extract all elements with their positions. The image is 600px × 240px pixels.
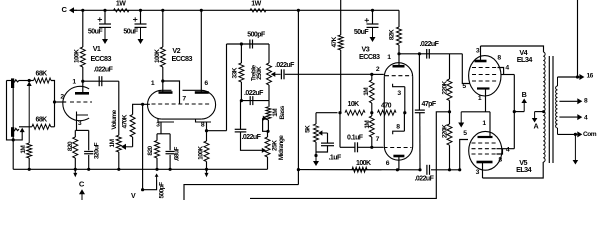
V5 grid 3 — [472, 153, 497, 155]
junction speaker line — [576, 75, 579, 78]
svg-text:1M: 1M — [364, 121, 371, 129]
junction cathode follower output — [205, 129, 208, 132]
resistor 33K slope — [240, 44, 242, 63]
resistor 1M grid leak — [27, 143, 32, 158]
ground arrow presence — [315, 156, 317, 163]
wire grid junction to channel 2 — [54, 102, 56, 127]
resistor 100K V1 plate load — [82, 10, 84, 47]
capacitor 50uF filter 1 — [104, 10, 106, 23]
wire V3a cathode lead — [404, 87, 406, 113]
tube V3 envelope — [384, 63, 412, 77]
svg-text:.68uF: .68uF — [174, 147, 181, 162]
ground arrow cathodes — [460, 112, 462, 124]
svg-text:.1uF: .1uF — [329, 155, 342, 162]
potentiometer Treble 250K — [268, 44, 270, 63]
capacitor 500pF treble — [249, 40, 251, 49]
resistor 68K input 1 — [34, 78, 51, 83]
capacitor 47pF bridge — [418, 54, 420, 110]
junction V3a plate node — [398, 45, 400, 54]
resistor 470K — [130, 115, 135, 138]
svg-text:820: 820 — [147, 145, 154, 155]
wire to node B — [514, 111, 524, 113]
wire V3b cathode lead — [403, 113, 405, 132]
svg-text:470K: 470K — [121, 114, 128, 128]
wire 16 ohm tap — [558, 76, 580, 78]
wire bass to midrange — [267, 131, 269, 137]
svg-text:V1: V1 — [93, 44, 101, 53]
capacitor .022uF slope lower — [240, 101, 242, 130]
wire 68K to grid junction — [51, 81, 55, 103]
svg-text:1M: 1M — [20, 146, 27, 154]
rail junction dots — [81, 9, 84, 12]
wire V4 plate to OT primary top — [481, 46, 544, 52]
V1 grid — [70, 101, 92, 103]
svg-text:Bass: Bass — [279, 105, 286, 119]
wire 0.1uF to V3b grid — [358, 146, 384, 148]
transformer T1 secondary winding — [557, 77, 559, 86]
wire V2a plate lead — [162, 81, 164, 92]
V3a plate — [393, 65, 405, 68]
resistor 220K V5 grid leak — [447, 124, 452, 145]
midrange wiper arrow — [262, 149, 263, 151]
wire B+ off-page bottom — [184, 185, 298, 200]
svg-text:82K: 82K — [388, 29, 395, 40]
wire pot bottom — [315, 142, 317, 156]
svg-text:47pF: 47pF — [422, 101, 437, 108]
junction jack2 sleeve — [12, 138, 15, 141]
wire B+ drop to V3b plate feed — [297, 10, 299, 184]
wire V2b plate to rail — [200, 10, 202, 92]
capacitor .022uF treble output — [280, 69, 282, 79]
svg-text:Midrange: Midrange — [278, 135, 285, 160]
svg-text:47K: 47K — [331, 36, 338, 47]
potentiometer Volume 1M — [116, 135, 121, 152]
junction V2 grid node — [141, 103, 144, 106]
wire V4 grid feed — [462, 54, 470, 84]
svg-text:Com: Com — [583, 131, 597, 138]
junction cathode node — [403, 111, 406, 114]
wire 0.1uF left — [340, 146, 355, 148]
triode V1 envelope — [63, 86, 89, 120]
potentiometer Midrange 25K — [265, 137, 270, 157]
wire jack1 tip wrap to jack2 switch — [7, 81, 23, 140]
svg-text:.022uF: .022uF — [94, 67, 114, 74]
bass wiper arrow — [263, 117, 264, 119]
V5 grid 1 — [472, 142, 497, 144]
wire 820 to ground — [156, 158, 158, 169]
input jack 1 — [11, 78, 14, 88]
svg-text:.022uF: .022uF — [415, 176, 435, 183]
V2a plate — [159, 91, 173, 94]
wire OT center tap to node A — [535, 111, 544, 113]
wire V5 plate lead — [482, 162, 484, 178]
wire presence pot to tail — [315, 113, 317, 124]
junction screen node — [513, 110, 516, 113]
wire to speaker (off-page top) — [577, 0, 579, 77]
junction 1M bottom — [370, 146, 373, 149]
V4 grid 1 — [472, 80, 498, 82]
svg-text:50uF: 50uF — [88, 29, 103, 36]
resistor 1M V3b grid leak — [369, 116, 374, 137]
wire 8 ohm tap — [559, 100, 577, 102]
wire wiper to .1uF — [327, 133, 329, 143]
wire 500pF return — [143, 180, 157, 190]
svg-text:Volume: Volume — [111, 109, 118, 129]
svg-text:EL34: EL34 — [516, 165, 532, 174]
capacitor .022uF tone — [249, 96, 251, 105]
V2 grid line — [152, 103, 212, 105]
V5 cathode — [478, 136, 493, 138]
wire to midrange wiper — [241, 132, 262, 150]
off-page arrow node C — [81, 193, 83, 200]
resistor 100K V3b plate load — [352, 167, 367, 172]
wire coupling cap to volume pot — [118, 81, 120, 135]
wire tone stack mid rail — [241, 100, 269, 102]
svg-text:1W: 1W — [116, 1, 126, 8]
svg-text:.022uF: .022uF — [420, 41, 440, 48]
wire V1 grid lead — [55, 101, 67, 103]
wire V2a plate node — [162, 67, 164, 81]
svg-text:ECC83: ECC83 — [172, 54, 193, 63]
ground arrow under 50uF 1 — [104, 28, 106, 40]
wire 68K2 to junction — [51, 126, 55, 128]
resistor 100K V2a plate load — [162, 10, 164, 47]
wire V4 cathode lead — [485, 89, 487, 112]
resistor 68K input 2 — [32, 124, 51, 129]
wire 470K to V2 grid — [133, 104, 150, 114]
wire V5 cathode lead — [489, 112, 491, 137]
svg-text:820: 820 — [67, 141, 74, 151]
resistor 1W dropper (left) — [114, 9, 130, 12]
input jack 2 — [11, 127, 14, 137]
wire 47K to tail node — [340, 50, 342, 113]
arrow tap 16 — [579, 76, 582, 78]
junction bias node — [449, 101, 451, 112]
capacitor 50uF filter 2 — [140, 10, 142, 23]
junction bass wiper tie — [266, 130, 269, 133]
svg-text:470: 470 — [381, 102, 392, 109]
svg-text:10K: 10K — [348, 101, 360, 108]
junction rail — [297, 9, 300, 12]
volume wiper arrow — [125, 146, 133, 148]
svg-text:33K: 33K — [231, 67, 238, 78]
V4 g3 tie — [498, 68, 504, 75]
junction presence ground — [314, 154, 317, 157]
presence wiper arrow — [321, 132, 327, 134]
junction 220K — [448, 168, 451, 171]
junction V3b plate — [396, 168, 399, 171]
transformer core line 2 — [552, 56, 554, 163]
wire V3b plate lead — [398, 156, 400, 170]
capacitor .022uF V3a coupling — [426, 49, 428, 59]
junction common ground — [574, 133, 577, 136]
V2b cathode — [196, 119, 212, 123]
junction tail node — [338, 111, 341, 114]
junction 33K top — [240, 42, 243, 45]
svg-text:100K: 100K — [356, 160, 371, 167]
wire 33K to lower node — [240, 82, 242, 101]
wire midrange to ground bus — [267, 157, 269, 169]
wire treble bottom — [268, 85, 270, 101]
wire V4 plate lead — [480, 46, 482, 61]
svg-text:68K: 68K — [36, 71, 48, 78]
V5 g3 tie — [497, 149, 503, 154]
V4 plate — [475, 60, 487, 63]
resistor 10K tail — [345, 110, 365, 115]
tube V3b envelope arc — [384, 146, 412, 160]
resistor 47K tail feed — [340, 0, 342, 35]
wire 4 ohm tap — [559, 116, 577, 118]
ground arrow under 50uF 3 — [372, 28, 374, 38]
V4 cathode — [477, 87, 490, 89]
junction slope node — [240, 99, 243, 102]
wire V1 plate lead — [82, 81, 84, 92]
wire CF output to tone stack — [207, 130, 227, 132]
ground arrow common — [574, 134, 576, 161]
svg-text:B: B — [522, 90, 527, 99]
svg-text:.022uF: .022uF — [275, 62, 295, 69]
junction jack switch node — [28, 79, 31, 82]
svg-text:68K: 68K — [36, 117, 48, 124]
wire V5 screen lead — [497, 148, 515, 150]
V4 grid 3 — [472, 67, 498, 69]
wire V1 plate node with junction — [82, 67, 84, 81]
svg-text:500pF: 500pF — [247, 32, 266, 39]
wire NFB node to 0.1uF — [339, 113, 341, 148]
treble wiper arrow — [274, 73, 280, 75]
ground markers below bus — [74, 169, 76, 173]
svg-text:.022uF: .022uF — [242, 134, 262, 141]
svg-text:1M: 1M — [363, 88, 370, 96]
junction V5 grid riser — [458, 168, 461, 171]
wire V1 cathode node — [75, 129, 88, 131]
capacitor .68uF bypass — [169, 134, 171, 151]
off-page arrow node A — [534, 112, 536, 119]
wire coupling to V5 grid node — [431, 169, 460, 171]
svg-text:ECC83: ECC83 — [91, 54, 112, 63]
V3b plate — [393, 155, 404, 158]
wire B+ rail — [74, 9, 399, 11]
arrow tap 8 — [577, 100, 578, 102]
wire V2b cathode lead — [206, 122, 208, 131]
wire bias feed line — [250, 112, 450, 199]
off-page arrow to node C — [73, 9, 77, 11]
svg-text:50uF: 50uF — [123, 29, 138, 36]
wire V1 cathode lead — [76, 115, 78, 130]
wire V2a cathode lead — [160, 122, 162, 134]
svg-text:100K: 100K — [154, 49, 161, 63]
capacitor .022uF V1 coupling — [98, 76, 100, 86]
V3a cathode — [393, 84, 405, 87]
svg-text:250K: 250K — [256, 66, 263, 80]
ground arrow under 50uF 2 — [140, 28, 142, 40]
V2b plate — [195, 91, 209, 94]
arrow tap Com — [577, 133, 578, 135]
arrow tap 4 — [577, 116, 578, 118]
capacitor 500pF to ground (arrow) — [156, 176, 158, 180]
wire tone stack input riser — [226, 44, 228, 131]
wire jack2 tip — [19, 126, 32, 128]
junction V3a grid — [370, 73, 373, 76]
svg-text:220K: 220K — [441, 80, 448, 94]
wire 820 to ground bus — [74, 158, 76, 169]
junction 47pF top — [418, 52, 421, 55]
svg-text:1W: 1W — [251, 1, 261, 8]
wire jack1 tip — [19, 80, 34, 82]
wire cathode ground line — [461, 111, 490, 113]
off-page arrow node B — [523, 102, 525, 112]
wire bass bottom — [267, 120, 269, 131]
V1 plate — [75, 92, 89, 95]
resistor 820 V2a cathode — [156, 134, 158, 141]
wire bass wiper loop — [263, 118, 268, 131]
junction plate feed — [297, 168, 300, 171]
junction 500pF wire — [141, 188, 144, 191]
junction grid node — [53, 100, 56, 103]
wire .1uF return — [316, 146, 328, 152]
transformer T1 primary winding — [543, 52, 545, 162]
jack switch contact arrow — [28, 85, 30, 143]
V5 grid 2 — [472, 148, 497, 150]
svg-text:ECC83: ECC83 — [359, 52, 380, 61]
jack2 switch contact arrow — [21, 131, 23, 132]
svg-text:100K: 100K — [74, 49, 81, 63]
V5 plate — [477, 161, 493, 164]
resistor 1W dropper (right) — [250, 9, 266, 12]
V3b cathode — [393, 131, 405, 134]
wire V2a cathode node — [157, 133, 170, 135]
svg-text:0.1uF: 0.1uF — [347, 135, 364, 142]
tube V2 envelope — [148, 90, 162, 119]
capacitor .1uF presence — [321, 142, 334, 144]
svg-text:500pF: 500pF — [159, 182, 166, 199]
wire volume to ground bus — [118, 152, 120, 169]
wire tone stack top — [227, 43, 270, 45]
capacitor 0.1uF NFB — [354, 142, 356, 152]
junction 47pF bottom — [418, 168, 421, 171]
capacitor .022uF V3b coupling — [426, 165, 428, 175]
wire tone output to V3 grid — [285, 73, 372, 75]
wire V4 screen lead — [501, 74, 514, 76]
wire common tap — [558, 133, 578, 135]
wire V1 plate to coupling cap — [83, 80, 119, 82]
V3b grid line — [384, 147, 412, 149]
svg-text:5K: 5K — [304, 125, 311, 133]
potentiometer Presence 5K — [314, 124, 319, 142]
wire V3b plate line — [298, 169, 420, 171]
wire ground bus — [13, 168, 267, 170]
resistor 1M V3a grid leak — [369, 80, 374, 103]
svg-text:320uF: 320uF — [94, 142, 101, 159]
V4 grid 2 — [472, 74, 498, 76]
wire 220K to V5 grid node — [449, 145, 451, 170]
wire V3a output — [399, 53, 462, 55]
wire screen bus — [513, 75, 515, 149]
capacitor 320uF V1 bypass — [88, 130, 90, 150]
V2a cathode — [158, 119, 174, 123]
resistor 470 cathode bias — [378, 110, 397, 115]
svg-text:50uF: 50uF — [354, 29, 369, 36]
wire 1M to ground bus — [28, 158, 30, 169]
pentode V5 envelope — [469, 131, 502, 170]
wire tail left — [316, 112, 338, 114]
transformer core line 1 — [548, 56, 550, 163]
svg-text:EL34: EL34 — [517, 55, 533, 64]
wire grid node down to 500pF — [142, 104, 144, 189]
wire V3a plate lead — [398, 54, 400, 66]
wire jack sleeves to ground — [12, 84, 14, 169]
resistor 100K V2b cathode — [206, 131, 208, 141]
svg-text:220K: 220K — [441, 124, 448, 138]
pentode V4 envelope — [469, 56, 501, 96]
ground bus junction dots — [28, 168, 31, 171]
svg-text:16: 16 — [587, 73, 594, 80]
potentiometer Bass 1M — [268, 101, 270, 107]
svg-text:100K: 100K — [198, 146, 205, 160]
svg-text:1M: 1M — [109, 139, 116, 147]
resistor 820 V1 cathode — [74, 130, 76, 137]
resistor 220K V4 grid leak — [449, 54, 451, 79]
wire V5 grid riser — [460, 140, 468, 170]
wire wiper to 470K — [132, 137, 134, 147]
wire 100K to ground — [206, 162, 208, 170]
wire grid entry — [372, 73, 384, 75]
V1 cathode — [77, 112, 89, 116]
junction 1M node — [370, 111, 373, 114]
svg-text:A: A — [533, 122, 538, 131]
capacitor 50uF filter 3 — [372, 10, 374, 23]
svg-text:.022uF: .022uF — [244, 90, 264, 97]
wire V5 plate to OT primary bottom — [483, 162, 544, 178]
V3a grid line — [385, 75, 412, 77]
wire direct coupling to V2b grid — [163, 81, 180, 104]
resistor 82K V3a plate load — [398, 10, 400, 27]
